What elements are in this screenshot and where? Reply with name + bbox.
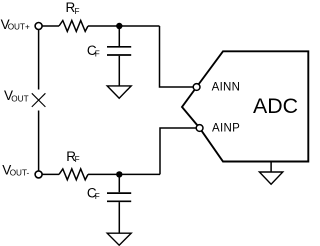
ground (ADC) — [259, 172, 282, 184]
resistor RF (bottom) — [59, 169, 88, 180]
svg-text:AINP: AINP — [212, 122, 240, 134]
ADC block U1 — [182, 51, 308, 161]
capacitor CF bottom lead — [118, 174, 120, 192]
label VOUT- — [2, 163, 29, 178]
node VOUT+ terminal — [35, 23, 42, 30]
resistor RF (top) — [59, 21, 88, 32]
svg-text:OUT: OUT — [11, 94, 28, 103]
ADC ground stub — [270, 162, 272, 173]
wire RF to bend (top) — [88, 25, 160, 27]
wire vertical rise to AINP — [160, 128, 196, 174]
wire RF to bend (bottom) — [88, 173, 160, 175]
label CF (top) — [87, 43, 100, 59]
source X symbol VOUT — [32, 93, 46, 107]
ground (bottom) — [107, 233, 131, 245]
svg-text:OUT+: OUT+ — [8, 23, 30, 32]
junction bottom (node of CF bottom) — [116, 171, 122, 177]
capacitor CF (top) plates — [107, 47, 131, 55]
label CF (bottom) — [87, 185, 100, 201]
svg-text:F: F — [95, 49, 100, 58]
pin AINP — [196, 125, 203, 132]
label VOUT+ — [1, 17, 30, 32]
capacitor CF top lower lead — [118, 56, 120, 86]
wire VOUT+ node to RF — [42, 25, 59, 27]
junction top (node of CF top) — [116, 23, 122, 29]
capacitor CF (bottom) plates — [107, 193, 131, 201]
svg-text:OUT-: OUT- — [10, 168, 30, 177]
wire VOUT+ node down to source — [38, 30, 40, 90]
wire vertical drop to AINN — [160, 26, 194, 87]
svg-text:F: F — [75, 7, 80, 16]
capacitor CF bottom lower lead — [118, 202, 120, 233]
label RF (top) — [66, 0, 80, 16]
wire VOUT- node to RF — [42, 173, 59, 175]
svg-text:F: F — [95, 192, 100, 201]
svg-text:F: F — [75, 155, 80, 164]
label RF (bottom) — [66, 149, 79, 164]
node VOUT- terminal — [35, 171, 42, 178]
label VOUT — [4, 88, 29, 103]
wire source to VOUT- node — [38, 111, 40, 171]
svg-text:ADC: ADC — [253, 94, 298, 118]
ground (top) — [107, 86, 131, 98]
pin AINN — [193, 84, 200, 91]
svg-text:AINN: AINN — [212, 82, 241, 94]
capacitor CF top lead — [118, 26, 120, 46]
